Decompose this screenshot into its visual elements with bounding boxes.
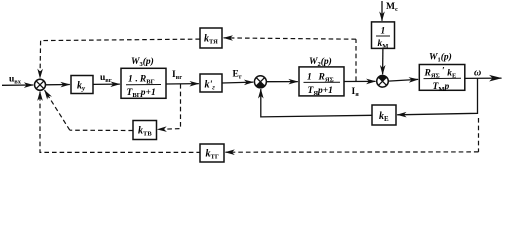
svg-text:Iвг: Iвг [172, 70, 182, 81]
svg-text:Mс: Mс [386, 2, 398, 13]
svg-text:TВГp+1: TВГp+1 [127, 88, 156, 99]
svg-text:ω: ω [474, 68, 481, 79]
svg-text:W2(p): W2(p) [309, 56, 332, 68]
svg-text:W1(p): W1(p) [429, 52, 452, 64]
svg-text:uвг: uвг [100, 73, 112, 84]
svg-text:uвх: uвх [9, 75, 22, 86]
svg-text:Iя: Iя [352, 87, 360, 98]
svg-text:1: 1 [307, 73, 312, 83]
svg-text:W3(p): W3(p) [131, 56, 154, 68]
svg-text:Eг: Eг [233, 70, 242, 81]
svg-text:1: 1 [381, 27, 386, 37]
svg-text:TЯp+1: TЯp+1 [308, 86, 333, 97]
